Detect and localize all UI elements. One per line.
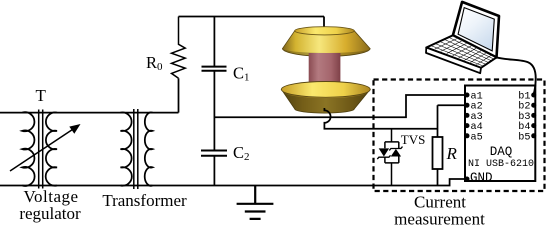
- pin b2: [531, 103, 536, 108]
- DAQ box NI USB-6210: [465, 86, 535, 182]
- wire squiggle from bushing bottom with hop over junction wire: [324, 108, 437, 129]
- svg-text:b5: b5: [518, 131, 530, 143]
- svg-text:measurement: measurement: [394, 210, 485, 229]
- transformer primary winding: [121, 112, 132, 185]
- capacitor C1: [202, 67, 227, 71]
- svg-text:T: T: [36, 86, 47, 105]
- variable arrow of regulator: [10, 128, 76, 172]
- dashed current-measurement box: [374, 80, 545, 192]
- svg-text:TVS: TVS: [401, 132, 426, 147]
- svg-text:Transformer: Transformer: [102, 191, 187, 210]
- wire bottom ground rail: [0, 179, 465, 186]
- pin a5: [465, 133, 470, 138]
- svg-text:R: R: [446, 144, 458, 163]
- pin a2: [465, 103, 470, 108]
- wire a2 branch to DAQ pin a2: [438, 104, 465, 106]
- svg-text:NI USB-6210: NI USB-6210: [468, 159, 534, 170]
- transformer secondary winding: [145, 112, 153, 185]
- resistor R0 zigzag: [172, 17, 186, 79]
- laptop base front face: [426, 48, 481, 74]
- svg-text:b3: b3: [518, 111, 530, 123]
- wire input feed left: [0, 112, 179, 114]
- test cell specimen cylinder: [309, 53, 341, 86]
- capacitor C2: [201, 151, 227, 156]
- wire C2 to rail: [213, 156, 215, 186]
- voltage regulator core: [39, 110, 43, 189]
- TVS left diode: [379, 148, 389, 156]
- wire secondary top to R0 branch: [178, 78, 180, 112]
- laptop cable to DAQ: [497, 57, 536, 94]
- pin b3: [531, 113, 536, 118]
- wire top rail: [179, 16, 325, 18]
- pin GND: [465, 177, 470, 182]
- test cell bottom electrode: [281, 89, 370, 113]
- TVS network: [385, 129, 399, 186]
- pin b5: [531, 133, 536, 138]
- voltage regulator T primary winding: [22, 112, 34, 186]
- svg-text:b1: b1: [518, 91, 530, 103]
- transformer core: [134, 109, 138, 189]
- svg-text:GND: GND: [470, 171, 493, 185]
- laptop keys: [431, 37, 494, 66]
- wire bushing top stub: [323, 17, 325, 29]
- laptop base: [426, 35, 496, 68]
- pin a4: [465, 123, 470, 128]
- pin b1: [531, 93, 536, 98]
- laptop lid: [453, 2, 499, 58]
- wire junction to pin a1: [214, 95, 464, 117]
- svg-text:b4: b4: [518, 121, 530, 133]
- pin a1: [465, 93, 470, 98]
- svg-text:b2: b2: [518, 101, 530, 113]
- test cell top electrode: [282, 31, 370, 57]
- voltage regulator secondary winding: [46, 112, 57, 185]
- resistor R box: [433, 137, 443, 169]
- wire C branch upper: [213, 17, 215, 67]
- pin a3: [465, 113, 470, 118]
- laptop screen: [458, 8, 494, 51]
- wire a2 branch vertical: [437, 105, 439, 137]
- wire R bottom: [437, 169, 439, 186]
- ground: [237, 186, 274, 219]
- svg-text:a5: a5: [471, 132, 483, 143]
- wire C1 to junction to C2: [213, 71, 215, 150]
- TVS right diode: [391, 149, 401, 157]
- pin b4: [531, 123, 536, 128]
- laptop: [426, 2, 499, 73]
- svg-text:DAQ: DAQ: [490, 145, 513, 159]
- svg-text:regulator: regulator: [19, 204, 81, 223]
